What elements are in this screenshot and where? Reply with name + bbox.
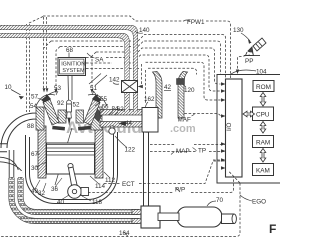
svg-text:IGNITION: IGNITION (61, 62, 85, 68)
svg-text:42: 42 (164, 84, 172, 91)
svg-text:70: 70 (216, 197, 224, 204)
svg-text:142: 142 (109, 77, 120, 84)
svg-text:66: 66 (102, 104, 110, 111)
svg-text:F: F (269, 222, 276, 236)
svg-text:104: 104 (256, 69, 267, 76)
svg-text:I/O: I/O (226, 123, 233, 131)
svg-text:88: 88 (27, 123, 35, 130)
svg-text:KAM: KAM (256, 167, 270, 174)
svg-text:55: 55 (100, 96, 108, 103)
svg-text:130: 130 (233, 27, 244, 34)
svg-text:40: 40 (57, 199, 65, 206)
svg-text:68: 68 (66, 47, 74, 54)
svg-text:162: 162 (144, 96, 155, 103)
svg-text:44: 44 (125, 120, 133, 127)
svg-text:MAP: MAP (176, 148, 190, 155)
svg-text:PP: PP (245, 58, 253, 65)
svg-text:.com: .com (170, 123, 196, 135)
svg-text:CPU: CPU (256, 112, 270, 119)
svg-text:ROM: ROM (256, 84, 271, 91)
svg-text:10: 10 (5, 84, 13, 91)
svg-text:TP: TP (198, 148, 206, 155)
svg-text:EGO: EGO (252, 199, 266, 206)
svg-text:FPW1: FPW1 (187, 19, 205, 26)
svg-text:57: 57 (31, 94, 39, 101)
svg-text:122: 122 (125, 147, 136, 154)
svg-text:ECT: ECT (122, 181, 135, 188)
svg-text:MAF: MAF (178, 117, 191, 124)
svg-text:54: 54 (30, 103, 38, 110)
svg-text:114: 114 (95, 183, 106, 190)
svg-text:36: 36 (51, 186, 59, 193)
svg-text:SA: SA (95, 57, 104, 64)
svg-text:112: 112 (105, 177, 116, 184)
svg-text:P/P: P/P (175, 187, 185, 194)
svg-text:118: 118 (92, 199, 103, 206)
svg-text:52: 52 (73, 102, 81, 109)
svg-text:67: 67 (31, 151, 39, 158)
svg-text:164: 164 (119, 230, 130, 237)
svg-text:120: 120 (184, 87, 195, 94)
svg-text:SYSTEM: SYSTEM (62, 68, 85, 74)
svg-text:32: 32 (38, 190, 46, 197)
svg-text:92: 92 (57, 100, 65, 107)
svg-text:RAM: RAM (256, 139, 270, 146)
